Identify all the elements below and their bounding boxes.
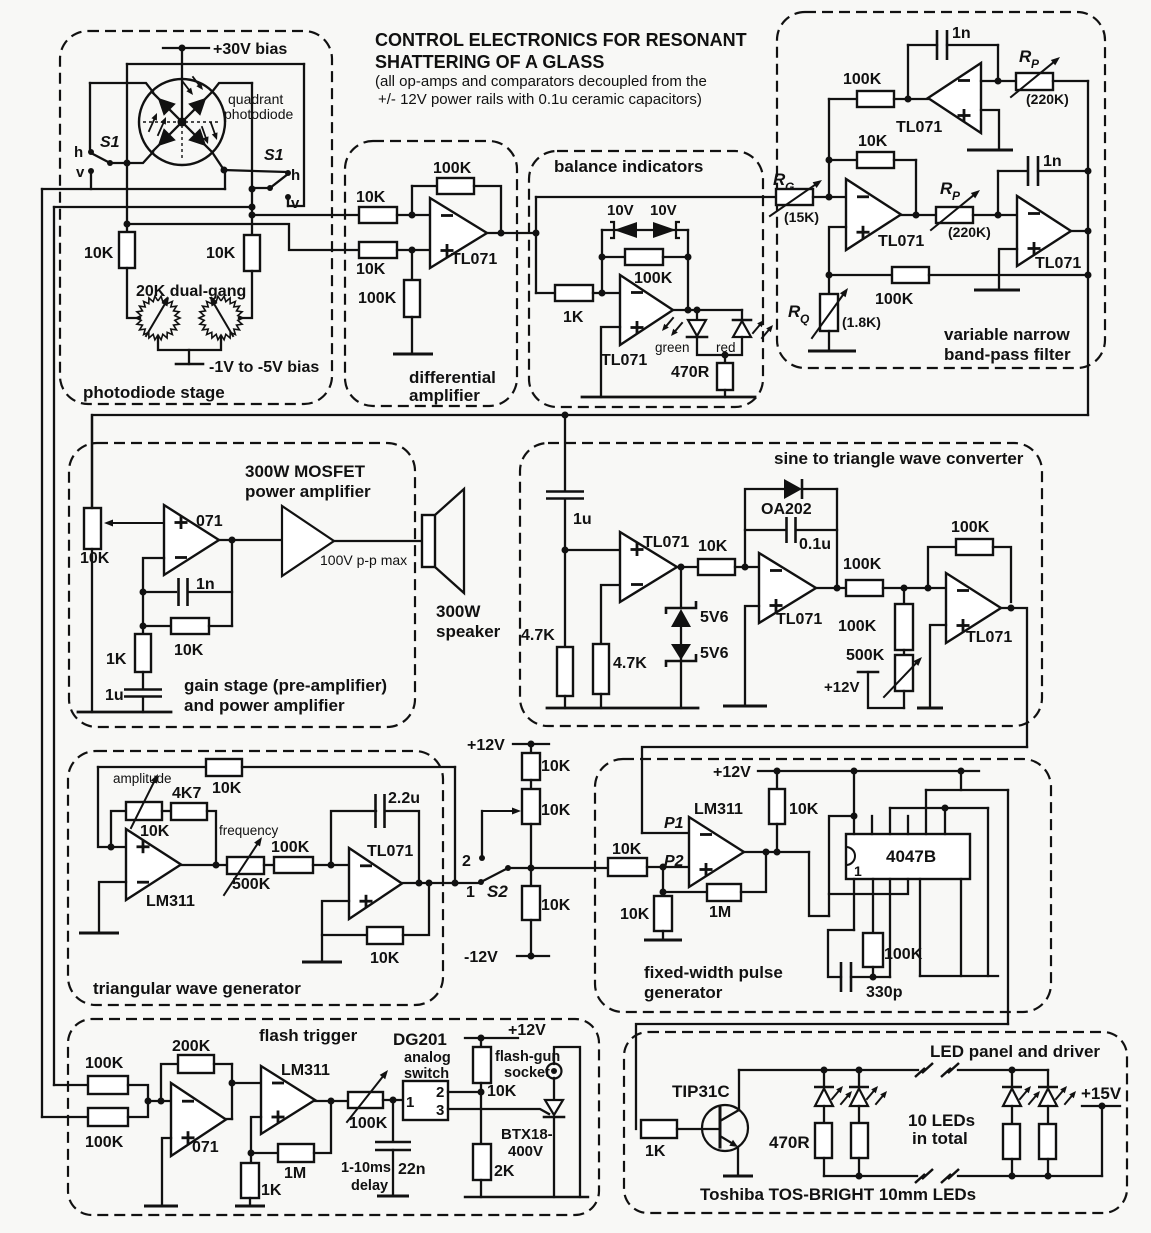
label RP top (1019, 47, 1040, 71)
wire lm311 noninv (248, 1117, 262, 1163)
wire bpf left bus (826, 99, 833, 197)
resistor 10K s2 top (522, 744, 571, 780)
wire 071 noninv gnd (144, 1138, 178, 1206)
svg-text:200K: 200K (172, 1038, 211, 1055)
svg-text:470R: 470R (671, 364, 710, 381)
wire 4047 bottom rail (920, 808, 998, 976)
potentiometer 10K amplitude (111, 774, 170, 847)
balance bottom rail (582, 396, 755, 399)
resistor 100K sine a (843, 556, 883, 596)
wire balance input node (535, 197, 537, 293)
svg-text:470R: 470R (769, 1133, 810, 1152)
svg-text:10K: 10K (140, 823, 170, 840)
zener D4 5V6 (666, 627, 729, 667)
wire lm311 out (315, 1100, 348, 1102)
potentiometer RQ 1.8K (812, 288, 881, 338)
potentiometer dual-gang B (199, 296, 243, 340)
block title: flash trigger (259, 1026, 358, 1045)
wire zener gnd (680, 658, 682, 708)
potentiometer 10K s2 (522, 780, 571, 824)
photodiode segment arrows (149, 77, 218, 146)
svg-text:S2: S2 (487, 882, 508, 901)
svg-text:10K: 10K (789, 801, 819, 818)
svg-text:+/- 12V power rails with 0.1u: +/- 12V power rails with 0.1u ceramic ca… (378, 91, 702, 108)
resistor 470R balance (671, 363, 733, 390)
block title: sine-triangle converter (774, 449, 1024, 468)
block outline: photodiode stage (60, 31, 332, 404)
potentiometer RP top 220K (1011, 57, 1069, 107)
svg-text:10K: 10K (206, 245, 236, 262)
wire 4047 pin down c (919, 879, 921, 976)
supply +12V sine (824, 672, 904, 708)
svg-text:22n: 22n (398, 1161, 426, 1178)
svg-text:in total: in total (912, 1129, 968, 1148)
svg-text:5V6: 5V6 (700, 609, 729, 626)
resistor 10K left photodiode (84, 163, 135, 268)
wire RP top to right bus (1053, 80, 1088, 82)
block outline: triangular wave generator (68, 751, 443, 1005)
svg-text:(15K): (15K) (784, 209, 819, 225)
svg-text:TL071: TL071 (896, 119, 942, 136)
svg-text:4047B: 4047B (886, 847, 936, 866)
title text (375, 30, 747, 108)
svg-text:socket: socket (504, 1065, 550, 1081)
svg-text:100K: 100K (843, 71, 882, 88)
IC U14 4047B (846, 834, 970, 879)
wire photodiode right out (252, 214, 359, 216)
resistor 10K diff top (356, 189, 397, 223)
svg-text:071: 071 (192, 1139, 219, 1156)
LED D8 (1002, 1070, 1040, 1106)
wire gain fb right (231, 540, 233, 626)
wire photodiode left out (124, 221, 360, 251)
svg-text:2: 2 (462, 853, 471, 870)
op-amp U7 071 gain (164, 505, 223, 575)
svg-text:2.2u: 2.2u (388, 790, 420, 807)
label RG (773, 170, 794, 194)
svg-text:10V: 10V (607, 202, 634, 219)
svg-text:-1V to -5V bias: -1V to -5V bias (209, 359, 319, 376)
svg-text:TL071: TL071 (878, 233, 924, 250)
wire 10K to inv input (397, 212, 430, 219)
bias terminal bar (176, 363, 203, 366)
svg-text:balance indicators: balance indicators (554, 157, 703, 176)
potentiometer dual-gang A (136, 296, 180, 340)
resistor 4.7K second (593, 644, 647, 694)
LED D7 (849, 1070, 887, 1106)
svg-text:1: 1 (466, 884, 475, 901)
resistor 10K gain fb (143, 618, 232, 659)
svg-text:1K: 1K (261, 1182, 282, 1199)
svg-text:10K: 10K (487, 1083, 517, 1100)
wire 4.7K gnds (565, 694, 601, 708)
op-amp U15 071 flash (171, 1083, 226, 1156)
wire tap B to flash (42, 1116, 88, 1118)
wire 1K to inv (593, 290, 620, 297)
resistor 10K trig fb (98, 759, 242, 797)
svg-text:SHATTERING OF A GLASS: SHATTERING OF A GLASS (375, 52, 604, 72)
label 300W MOSFET (245, 462, 371, 501)
wire diff output (487, 230, 540, 237)
wire left h bus (89, 83, 91, 150)
svg-text:flash trigger: flash trigger (259, 1026, 358, 1045)
label S1 left (100, 134, 120, 151)
zener D3 5V6 (666, 567, 729, 627)
wire led top rail right (958, 1067, 1048, 1074)
label flash-gun socket (495, 1049, 560, 1081)
label Toshiba (700, 1185, 976, 1204)
svg-text:+12V: +12V (713, 764, 751, 781)
label quadrant photodiode (224, 91, 294, 122)
svg-text:1u: 1u (573, 511, 592, 528)
svg-text:1n: 1n (196, 576, 215, 593)
svg-text:500K: 500K (846, 647, 885, 664)
transistor Q1 TIP31C (672, 1070, 748, 1176)
resistor 4K7 (162, 785, 207, 820)
svg-text:1K: 1K (106, 651, 127, 668)
wire +30V to photodiode (181, 48, 183, 122)
wire to lm311 inv (232, 1082, 261, 1084)
svg-text:1M: 1M (709, 904, 731, 921)
op-amp U8 TL071 sine1 (620, 532, 689, 602)
svg-text:10K: 10K (370, 950, 400, 967)
ground RQ (808, 331, 856, 351)
wire bpf top inv (981, 45, 1016, 85)
svg-text:4.7K: 4.7K (521, 627, 555, 644)
svg-text:S1: S1 (264, 147, 284, 164)
resistor 470R led c (1003, 1106, 1020, 1177)
wire v right contact (287, 198, 289, 206)
svg-text:10K: 10K (541, 758, 571, 775)
svg-text:100K: 100K (271, 839, 310, 856)
wire led bottom rail right (958, 1173, 1102, 1180)
resistor 1K gain (106, 634, 151, 672)
svg-text:power amplifier: power amplifier (245, 482, 371, 501)
wire balance fb bus right (687, 230, 689, 310)
block outline: band-pass filter (777, 12, 1105, 368)
svg-text:S1: S1 (100, 134, 120, 151)
label frequency (219, 823, 279, 838)
label 100V p-p max (320, 552, 407, 568)
svg-text:TL071: TL071 (1035, 255, 1081, 272)
wire pulse out (744, 849, 809, 856)
svg-text:10K: 10K (858, 133, 888, 150)
svg-text:10K: 10K (541, 802, 571, 819)
resistor 1K led (641, 1120, 677, 1160)
wire P1 in (642, 832, 689, 834)
switch S2 contact 2 (462, 853, 485, 870)
wire s2 node (528, 824, 535, 886)
node +30V bias (163, 41, 287, 58)
svg-text:sine to triangle wave converte: sine to triangle wave converter (774, 449, 1024, 468)
svg-text:5V6: 5V6 (700, 645, 729, 662)
svg-text:10K: 10K (356, 189, 386, 206)
svg-text:TL071: TL071 (367, 843, 413, 860)
op-amp U10 TL071 sine3 (946, 573, 1012, 646)
label v right (285, 194, 300, 212)
supply +12V flash (465, 1022, 546, 1042)
resistor 470R led d (1039, 1106, 1056, 1177)
resistor 100K flash bottom (85, 1108, 128, 1151)
svg-text:1n: 1n (952, 25, 971, 42)
svg-text:1M: 1M (284, 1165, 306, 1182)
svg-text:photodiode: photodiode (224, 106, 294, 122)
wire 4047 bracket 808 (890, 805, 988, 835)
resistor 100K diff feedback (412, 160, 474, 215)
wire s1 inv (601, 585, 620, 644)
block outline: balance indicators (529, 151, 763, 407)
wire bpf right bus (1085, 81, 1092, 415)
svg-text:BTX18-: BTX18- (501, 1126, 553, 1143)
svg-text:DG201: DG201 (393, 1030, 447, 1049)
svg-text:+12V: +12V (508, 1022, 546, 1039)
wire pulse out to 4047 (809, 852, 829, 916)
op-amp U9 TL071 sine2 (759, 553, 822, 628)
svg-text:P: P (952, 189, 961, 203)
label amplitude (113, 771, 172, 786)
resistor 1K flash (235, 1163, 282, 1206)
svg-text:100K: 100K (634, 270, 673, 287)
resistor 200K flash fb (161, 1038, 232, 1101)
svg-text:speaker: speaker (436, 622, 501, 641)
wire s2 out (816, 587, 846, 589)
ground diff (393, 317, 433, 354)
potentiometer RP mid 220K (931, 190, 991, 240)
wire 10K to noninv input (397, 247, 430, 254)
label v left (76, 164, 85, 181)
svg-text:flash-gun: flash-gun (495, 1049, 560, 1065)
wire 4047 pin down d (960, 879, 962, 976)
wire amp out (334, 540, 422, 542)
label 1-10ms delay (341, 1160, 391, 1194)
svg-text:10K: 10K (174, 642, 204, 659)
wire LL lead (124, 152, 154, 167)
flash bottom rail (465, 1196, 588, 1198)
svg-text:h: h (291, 167, 300, 184)
label 10 LEDs in total (908, 1111, 975, 1148)
wire oa202 right (834, 489, 841, 592)
svg-text:switch: switch (404, 1066, 449, 1082)
svg-text:Toshiba TOS-BRIGHT 10mm LEDs: Toshiba TOS-BRIGHT 10mm LEDs (700, 1185, 976, 1204)
wire leds join (697, 337, 742, 363)
label P2 (664, 853, 684, 870)
resistor 470R led a (815, 1106, 832, 1176)
resistor 10K s2 bottom (522, 886, 571, 920)
wire 10K to noninv (647, 864, 689, 871)
svg-text:(220K): (220K) (1026, 91, 1069, 107)
svg-text:1K: 1K (563, 309, 584, 326)
wire 4047 pin row 790 (926, 771, 1008, 834)
svg-text:v: v (76, 164, 85, 181)
capacitor C2 1n top (908, 25, 998, 99)
svg-text:P: P (1031, 57, 1040, 71)
capacitor C8 2.2u (331, 790, 420, 883)
resistor 10K sine (698, 538, 735, 575)
wiper arrow s2 (482, 808, 521, 856)
label S1 right (264, 147, 284, 164)
svg-text:photodiode stage: photodiode stage (83, 383, 225, 402)
block outline: fixed-width pulse generator (595, 759, 1051, 1012)
svg-text:100K: 100K (875, 291, 914, 308)
wire main bus y415 (92, 412, 1088, 509)
block title: photodiode stage (83, 383, 225, 402)
label h left (74, 144, 83, 161)
wire left v row (42, 170, 225, 189)
svg-text:100K: 100K (349, 1115, 388, 1132)
label 470R (769, 1133, 810, 1152)
resistor 1M pulse fb (663, 852, 766, 921)
capacitor C4 1n gain (143, 576, 232, 606)
svg-text:h: h (74, 144, 83, 161)
potentiometer 100K delay (347, 1070, 388, 1132)
svg-text:(1.8K): (1.8K) (842, 314, 881, 330)
label P1 (664, 815, 684, 832)
wire dg201 pin3 (448, 1109, 549, 1114)
block title: LED panel (930, 1042, 1100, 1061)
potentiometer 10K volume (80, 508, 110, 567)
svg-text:100K: 100K (951, 519, 990, 536)
svg-text:1n: 1n (1043, 153, 1062, 170)
svg-text:10K: 10K (698, 538, 728, 555)
svg-text:-12V: -12V (464, 949, 498, 966)
op-amp U4 TL071 bpf top (896, 63, 981, 136)
op-amp U12 TL071 trig (349, 843, 413, 919)
op-amp U5 TL071 bpf mid (846, 179, 924, 250)
svg-text:100K: 100K (838, 618, 877, 635)
svg-text:(220K): (220K) (948, 224, 991, 240)
wire trig fb row (242, 766, 455, 768)
wire big loop top (127, 63, 304, 65)
quadrant photodiode D1 body (139, 79, 225, 165)
potentiometer 500K freq (224, 837, 271, 895)
svg-text:1K: 1K (645, 1143, 666, 1160)
svg-text:4.7K: 4.7K (613, 655, 647, 672)
svg-text:3: 3 (436, 1102, 444, 1119)
wire long left vertical A (53, 207, 55, 1085)
svg-text:100K: 100K (433, 160, 472, 177)
wire s3 noninv gnd (917, 625, 946, 708)
wire pot to dg201 (383, 1097, 403, 1104)
wire 4047 pin down b (889, 879, 891, 977)
wire 4047 vdd pin (851, 771, 858, 834)
resistor 10K pulse gnd (620, 867, 682, 940)
svg-text:1u: 1u (105, 687, 124, 704)
thyristor Q2 BTX18 (501, 1078, 564, 1197)
wire bpf output (1071, 228, 1092, 235)
wire row to output (452, 767, 459, 887)
wire right bus x304 (288, 64, 304, 206)
wire after 100K (883, 585, 946, 592)
block outline: gain stage (69, 443, 415, 727)
block title: gain stage (184, 676, 387, 715)
resistor 10K trig fb2 (322, 883, 429, 967)
wire balance noninv (601, 327, 620, 397)
wire mid out (901, 214, 936, 216)
wire pot B lead (239, 271, 252, 318)
label 300W speaker (436, 602, 501, 641)
block title: balance indicators (554, 157, 703, 176)
wire s2 noninv gnd (723, 606, 767, 706)
break marks bottom (915, 1169, 959, 1183)
wire trig plus bus (98, 767, 126, 851)
switch S1 left (88, 149, 127, 174)
svg-text:P1: P1 (664, 815, 684, 832)
wire LR lead (212, 152, 228, 174)
wire volume top (91, 415, 93, 508)
wire balance top rail (536, 196, 776, 198)
svg-text:triangular wave generator: triangular wave generator (93, 979, 301, 998)
svg-text:and power amplifier: and power amplifier (184, 696, 345, 715)
svg-text:300W: 300W (436, 602, 481, 621)
wire s1 out (677, 564, 698, 571)
label h right (291, 167, 300, 184)
svg-text:10K: 10K (541, 897, 571, 914)
block title: differential amplifier (409, 368, 496, 405)
supply -12V s2 (464, 920, 549, 966)
wire 4047 stub a (871, 816, 873, 834)
svg-text:LM311: LM311 (146, 893, 195, 910)
resistor 10K right photodiode (206, 235, 260, 271)
svg-text:10K: 10K (612, 841, 642, 858)
svg-text:delay: delay (351, 1178, 388, 1194)
wire UR lead (212, 83, 252, 92)
wire volume bottom (91, 549, 93, 712)
svg-text:Q: Q (800, 312, 810, 326)
resistor 1K balance (555, 285, 593, 326)
wire trig out row (181, 864, 227, 866)
svg-text:330p: 330p (866, 984, 903, 1001)
resistor 100K divider (838, 588, 913, 650)
svg-text:0.1u: 0.1u (799, 536, 831, 553)
svg-text:10V: 10V (650, 202, 677, 219)
svg-text:fixed-width pulse: fixed-width pulse (644, 963, 783, 982)
comparator U16 LM311 flash (261, 1062, 330, 1134)
svg-text:(all op-amps and comparators d: (all op-amps and comparators decoupled f… (375, 73, 707, 90)
wire gain inv (140, 558, 165, 634)
wire 100K to inv2 (313, 862, 349, 869)
LED red (716, 310, 773, 355)
wire right inner bus x252 (249, 83, 256, 235)
diode D5 OA202 (745, 479, 837, 567)
resistor 10K pulse pullup (769, 771, 819, 856)
svg-text:LM311: LM311 (281, 1062, 330, 1079)
wire tap A to flash (54, 1084, 88, 1086)
wiper arrow volume (104, 520, 163, 527)
wire long monitor tap upper (54, 206, 252, 208)
svg-text:4K7: 4K7 (172, 785, 201, 802)
supply +15V (1081, 1084, 1122, 1176)
svg-text:TIP31C: TIP31C (672, 1082, 730, 1101)
resistor 10K bpf (829, 133, 916, 168)
resistor 10K pulse in (608, 841, 647, 876)
resistor 100K 4047 (863, 879, 923, 977)
svg-text:amplifier: amplifier (409, 386, 480, 405)
svg-text:TL071: TL071 (451, 251, 497, 268)
wire pot A lead (127, 268, 140, 318)
wire s2 to pulse (508, 867, 608, 869)
svg-text:frequency: frequency (219, 823, 279, 838)
block outline: sine-triangle converter (520, 443, 1042, 726)
wire dg201 pin2 (448, 1089, 485, 1096)
svg-text:10K: 10K (356, 261, 386, 278)
resistor 2K flash (473, 1092, 515, 1197)
label 10V left (607, 202, 634, 219)
svg-text:1: 1 (854, 863, 862, 879)
wire LR to h contact (224, 170, 286, 172)
capacitor C6 1u input (546, 415, 592, 647)
svg-text:LM311: LM311 (694, 801, 743, 818)
wire to noninv s1 (565, 549, 620, 551)
